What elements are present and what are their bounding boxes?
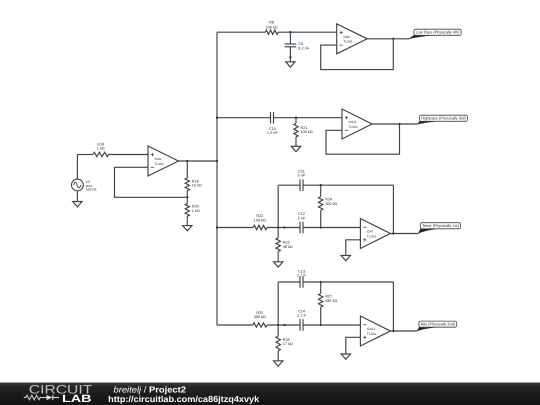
svg-text:TL081: TL081 bbox=[155, 162, 165, 166]
svg-text:10 kΩ: 10 kΩ bbox=[192, 184, 202, 188]
svg-text:OA12: OA12 bbox=[367, 327, 376, 331]
svg-text:LAB: LAB bbox=[62, 393, 92, 405]
svg-text:C14: C14 bbox=[298, 310, 305, 314]
svg-text:100 kΩ: 100 kΩ bbox=[266, 25, 278, 29]
svg-text:TL081: TL081 bbox=[367, 332, 377, 336]
svg-text:OA11: OA11 bbox=[349, 120, 357, 124]
svg-text:TL081: TL081 bbox=[367, 234, 377, 238]
svg-text:1.5 nF: 1.5 nF bbox=[267, 131, 278, 135]
svg-text:1 kΩ: 1 kΩ bbox=[97, 147, 105, 151]
svg-text:R19: R19 bbox=[97, 142, 104, 146]
svg-text:46 kΩ: 46 kΩ bbox=[283, 245, 293, 249]
svg-text:http://circuitlab.com/ca86jtzq: http://circuitlab.com/ca86jtzq4xvyk bbox=[108, 394, 259, 404]
svg-text:1 kΩ: 1 kΩ bbox=[192, 209, 200, 213]
svg-text:Alto (Physically 2nd): Alto (Physically 2nd) bbox=[421, 322, 456, 327]
svg-text:OA8: OA8 bbox=[343, 35, 350, 39]
svg-text:R8: R8 bbox=[269, 21, 274, 25]
svg-text:5 nF: 5 nF bbox=[298, 174, 306, 178]
svg-text:TL081: TL081 bbox=[343, 40, 353, 44]
svg-text:100 kΩ: 100 kΩ bbox=[301, 130, 313, 134]
svg-text:2.7 F: 2.7 F bbox=[297, 274, 306, 278]
svg-text:R21: R21 bbox=[301, 126, 308, 130]
svg-text:OA9: OA9 bbox=[155, 157, 162, 161]
svg-text:R24: R24 bbox=[325, 197, 332, 201]
svg-text:TL081: TL081 bbox=[349, 125, 359, 129]
svg-text:2.7 F: 2.7 F bbox=[297, 314, 306, 318]
svg-text:17 kΩ: 17 kΩ bbox=[283, 342, 293, 346]
svg-text:156 kΩ: 156 kΩ bbox=[254, 219, 266, 223]
svg-text:breitelj / Project2: breitelj / Project2 bbox=[114, 384, 187, 394]
svg-text:OA7: OA7 bbox=[367, 230, 374, 234]
svg-text:Highpass (Physically 3rd): Highpass (Physically 3rd) bbox=[421, 116, 466, 121]
svg-text:586 kΩ: 586 kΩ bbox=[325, 299, 337, 303]
svg-text:200 kΩ: 200 kΩ bbox=[325, 202, 337, 206]
svg-text:R22: R22 bbox=[256, 214, 263, 218]
svg-text:C11: C11 bbox=[298, 169, 305, 173]
svg-text:R23: R23 bbox=[283, 240, 290, 244]
svg-text:8.2 nF: 8.2 nF bbox=[298, 46, 309, 50]
svg-text:C13: C13 bbox=[298, 269, 305, 273]
svg-text:R27: R27 bbox=[325, 295, 332, 299]
svg-text:C12: C12 bbox=[298, 212, 305, 216]
svg-text:R25: R25 bbox=[256, 311, 263, 315]
svg-text:R20: R20 bbox=[192, 205, 199, 209]
svg-text:Tenor (Physically 1st): Tenor (Physically 1st) bbox=[422, 223, 460, 228]
svg-text:Low Pass (Physically 4th): Low Pass (Physically 4th) bbox=[416, 30, 460, 35]
svg-text:R18: R18 bbox=[192, 179, 199, 183]
svg-text:100 Hz: 100 Hz bbox=[86, 188, 97, 192]
svg-text:5 nF: 5 nF bbox=[298, 216, 306, 220]
svg-text:300 kΩ: 300 kΩ bbox=[254, 315, 266, 319]
svg-text:R26: R26 bbox=[283, 338, 290, 342]
